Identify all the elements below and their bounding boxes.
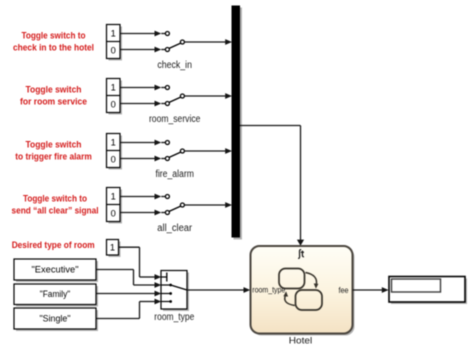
svg-text:1: 1 xyxy=(111,191,116,201)
wire from Single horizontal xyxy=(96,318,140,320)
constant block 1/0 pair for room_service xyxy=(109,81,123,115)
svg-text:1: 1 xyxy=(111,82,116,92)
wire from switch all_clear to mux xyxy=(184,204,225,206)
svg-text:room_service: room_service xyxy=(149,114,201,125)
display value field xyxy=(392,279,441,292)
constant block 1/0 pair for check_in xyxy=(109,27,123,61)
mux block (vertical black bar) xyxy=(234,8,243,240)
multiport switch selector diagonal xyxy=(171,285,187,290)
svg-text:0: 0 xyxy=(111,45,116,55)
svg-text:fee: fee xyxy=(339,286,349,295)
arrowhead into fire_alarm switch input 2 xyxy=(155,156,162,162)
wire from constant 0 to switch check_in xyxy=(120,49,155,51)
wire from constant 1 to switch room_service xyxy=(120,87,155,89)
manual switch room_service: input terminal circles, lever, output terminal xyxy=(165,86,169,90)
svg-text:1: 1 xyxy=(110,243,115,253)
wire into multiport control port xyxy=(140,276,156,278)
constant block 1 (room selector index) xyxy=(109,242,121,258)
wire from constant 1 to switch all_clear xyxy=(120,196,155,198)
arrowhead into mux from fire_alarm xyxy=(225,148,232,154)
svg-text:"Executive": "Executive" xyxy=(32,264,79,275)
arrowhead into mux from check_in xyxy=(225,39,232,45)
svg-text:1: 1 xyxy=(111,28,116,38)
svg-text:room_type: room_type xyxy=(252,286,285,295)
svg-text:0: 0 xyxy=(111,208,116,218)
svg-text:check in to the hotel: check in to the hotel xyxy=(13,42,94,52)
constant block 1/0 pair for fire_alarm xyxy=(109,136,123,170)
manual switch all_clear: input terminal circles, lever, output terminal xyxy=(165,195,169,199)
chart state 1 xyxy=(279,269,305,289)
wire stub input 1 check_in xyxy=(161,33,165,35)
manual switch fire_alarm: input terminal circles, lever, output terminal xyxy=(165,141,169,145)
chart state 2 xyxy=(296,290,323,310)
wire into multiport input 2 xyxy=(134,284,156,286)
svg-text:room_type: room_type xyxy=(154,312,194,323)
arrowhead into room_service switch input 2 xyxy=(155,101,162,107)
svg-text:send “all clear” signal: send “all clear” signal xyxy=(12,205,99,215)
svg-text:Toggle switch to: Toggle switch to xyxy=(22,31,86,41)
constant block Executive xyxy=(16,261,98,282)
arrowhead into all_clear switch input 2 xyxy=(155,210,162,216)
wire multiport output to chart xyxy=(187,289,244,291)
svg-text:check_in: check_in xyxy=(157,60,192,71)
wire from constant 0 to switch fire_alarm xyxy=(120,158,155,160)
svg-text:"Family": "Family" xyxy=(40,289,71,300)
wire stub input 2 all_clear xyxy=(161,212,165,214)
constant block Family xyxy=(16,286,98,307)
arrowhead into check_in switch input 2 xyxy=(155,47,162,53)
transition arc state1 to state2 xyxy=(306,273,317,286)
svg-text:Toggle switch: Toggle switch xyxy=(26,140,82,150)
svg-text:Toggle switch: Toggle switch xyxy=(26,85,82,95)
svg-text:Desired type of room: Desired type of room xyxy=(12,240,95,250)
arrowhead into mux from all_clear xyxy=(225,202,232,208)
wire into multiport input 4 xyxy=(140,301,156,303)
wire mux output horizontal xyxy=(240,125,301,127)
constant block Single xyxy=(16,310,98,331)
arrowhead into chart room_type input xyxy=(244,287,251,293)
wire from Family to multiport input 3 xyxy=(96,293,155,295)
wire stub input 1 room_service xyxy=(161,87,165,89)
wire from Single vertical xyxy=(139,302,141,319)
wire from constant 1 to switch fire_alarm xyxy=(120,142,155,144)
multiport switch block room_type xyxy=(163,273,189,312)
wire mux output vertical down to chart xyxy=(300,126,302,241)
multiport switch input stubs with dots xyxy=(161,284,170,286)
wire from constant 1 horizontal xyxy=(119,246,140,248)
arrowhead multiport input 3 xyxy=(155,291,162,297)
arrowhead into display xyxy=(382,287,389,293)
svg-text:fire_alarm: fire_alarm xyxy=(155,169,194,180)
wire stub input 1 fire_alarm xyxy=(161,142,165,144)
wire from Executive horizontal xyxy=(96,269,134,271)
wire from Executive vertical xyxy=(133,270,135,286)
wire from constant 0 to switch all_clear xyxy=(120,212,155,214)
svg-text:for room service: for room service xyxy=(20,96,87,106)
wire from constant 1 to switch check_in xyxy=(120,33,155,35)
arrowhead into all_clear switch input 1 xyxy=(155,194,162,200)
svg-text:Toggle switch to: Toggle switch to xyxy=(23,194,87,204)
wire fee to display xyxy=(353,289,383,291)
arrowhead into check_in switch input 1 xyxy=(155,31,162,37)
wire from switch fire_alarm to mux xyxy=(184,150,225,152)
wire stub input 2 check_in xyxy=(161,49,165,51)
svg-text:"Single": "Single" xyxy=(40,313,71,324)
svg-text:to trigger fire alarm: to trigger fire alarm xyxy=(15,151,92,161)
wire stub input 2 room_service xyxy=(161,103,165,105)
svg-text:all_clear: all_clear xyxy=(157,223,192,234)
constant block 1/0 pair for all_clear xyxy=(109,190,123,224)
wire from constant 1 vertical xyxy=(139,247,141,277)
transition arc state2 to state1 xyxy=(285,295,295,306)
svg-text:Hotel: Hotel xyxy=(289,335,313,345)
wire from switch check_in to mux xyxy=(184,41,225,43)
wire stub input 2 fire_alarm xyxy=(161,158,165,160)
arrowhead into room_service switch input 1 xyxy=(155,85,162,91)
arrowhead into fire_alarm switch input 1 xyxy=(155,140,162,146)
manual switch check_in: input terminal circles, lever, output terminal xyxy=(165,32,169,36)
Stateflow chart block Hotel xyxy=(253,248,355,336)
arrowhead multiport input 2 xyxy=(155,282,162,288)
chart trigger symbol ft xyxy=(298,250,301,259)
wire from constant 0 to switch room_service xyxy=(120,103,155,105)
multiport switch control tick xyxy=(161,276,167,278)
svg-text:0: 0 xyxy=(111,154,116,164)
arrowhead multiport input 4 xyxy=(155,299,162,305)
svg-text:1: 1 xyxy=(111,137,116,147)
wire stub input 1 all_clear xyxy=(161,196,165,198)
arrowhead into chart trigger port xyxy=(297,240,304,246)
display block xyxy=(391,279,467,305)
arrowhead into mux from room_service xyxy=(225,93,232,99)
arrowhead multiport control input xyxy=(155,274,162,280)
svg-text:0: 0 xyxy=(111,99,116,109)
wire from switch room_service to mux xyxy=(184,95,225,97)
